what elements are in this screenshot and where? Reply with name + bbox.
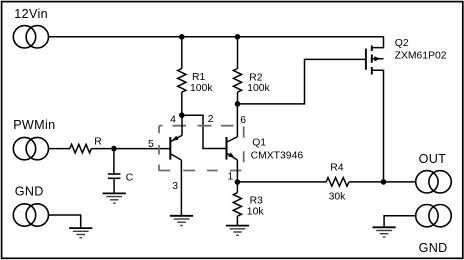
svg-text:Q1: Q1	[252, 138, 266, 149]
emitter lead up to pin 4	[181, 115, 183, 135]
ground under C	[103, 193, 126, 203]
svg-text:3: 3	[172, 181, 178, 192]
resistor R2	[233, 69, 241, 93]
emitter lead down pin 1	[236, 160, 238, 182]
wire R1 bottom lead	[181, 92, 183, 115]
svg-text:12Vin: 12Vin	[14, 7, 48, 21]
junction pin1 R3	[235, 179, 241, 185]
ground under R3	[226, 226, 249, 236]
junction OUT	[381, 179, 387, 185]
svg-text:R2: R2	[249, 72, 263, 83]
svg-text:30k: 30k	[329, 192, 347, 203]
svg-text:4: 4	[170, 115, 176, 126]
transistor Q1b (NPN right)	[227, 104, 238, 182]
transistor Q2 (P-MOSFET)	[366, 37, 384, 182]
junction PWM RC	[111, 146, 117, 152]
junction gate net	[235, 101, 241, 107]
wire R4 to OUT port	[349, 181, 416, 183]
wire OUT row: pin1 junction to R4	[237, 181, 326, 183]
svg-text:R4: R4	[330, 163, 344, 174]
svg-text:PWMin: PWMin	[13, 118, 55, 132]
emitter diagonal	[171, 135, 182, 141]
port GND right	[416, 205, 452, 227]
capacitor C	[108, 174, 121, 178]
svg-text:2: 2	[208, 114, 214, 125]
wire 12V top rail	[49, 36, 384, 38]
port GND left	[13, 204, 48, 226]
wire GND left port to ground	[49, 215, 81, 228]
gate bar	[365, 49, 367, 70]
collector diagonal	[171, 154, 182, 160]
ground left port	[69, 228, 92, 238]
svg-text:C: C	[126, 173, 134, 184]
collector lead up pin 6	[236, 104, 238, 137]
svg-text:100k: 100k	[190, 83, 213, 94]
transistor Q1a (PNP left)	[170, 115, 182, 215]
svg-text:10k: 10k	[247, 207, 265, 218]
ground right port	[373, 227, 396, 237]
junction pin4 net	[179, 112, 185, 118]
emitter arrow	[228, 152, 235, 158]
wire R2 bottom lead	[237, 92, 239, 104]
svg-text:6: 6	[240, 115, 246, 126]
svg-text:ZXM61P02: ZXM61P02	[395, 50, 447, 61]
wire PWM row: port to R	[49, 148, 70, 150]
svg-text:GND: GND	[15, 185, 44, 199]
wire R1 top lead	[181, 37, 183, 69]
emitter diagonal	[227, 153, 238, 160]
wire R3 bottom lead	[236, 216, 238, 225]
source stub + lead down to OUT junction	[372, 70, 384, 182]
wire pin2 net: R1 bottom junction to Q1b base	[182, 115, 227, 148]
port PWMin	[13, 137, 48, 159]
wire R to Q1a base	[91, 148, 170, 150]
port OUT	[416, 171, 452, 193]
base bar	[226, 137, 228, 160]
drain stub + lead to rail	[372, 37, 384, 48]
ground under Q1a pin 3	[170, 216, 193, 226]
capacitor C lead top	[113, 149, 115, 174]
svg-text:100k: 100k	[247, 83, 270, 94]
junction R1 top	[179, 34, 185, 40]
svg-text:CMXT3946: CMXT3946	[251, 150, 304, 161]
svg-text:R3: R3	[250, 196, 264, 207]
wire GND right port to ground	[384, 216, 416, 227]
channel segments	[371, 46, 373, 52]
collector lead down pin 3	[180, 160, 182, 216]
wire R2 top lead	[237, 37, 239, 69]
junction R2 top	[235, 34, 241, 40]
svg-text:R1: R1	[192, 72, 206, 83]
svg-text:Q2: Q2	[395, 38, 409, 49]
wire gate net: junction to Q2 gate	[238, 59, 366, 104]
resistor R	[70, 144, 92, 153]
resistor R3	[233, 193, 241, 217]
capacitor C lead bottom	[113, 178, 115, 193]
svg-text:R: R	[94, 136, 102, 147]
svg-text:1: 1	[228, 172, 234, 183]
port 12Vin	[13, 26, 48, 48]
resistor R3 lead top	[236, 182, 238, 193]
svg-text:5: 5	[148, 139, 154, 150]
resistor R4	[326, 178, 349, 187]
svg-text:OUT: OUT	[419, 152, 447, 166]
collector diagonal	[227, 137, 238, 142]
body stub with arrow	[372, 58, 384, 60]
emitter arrow	[171, 136, 178, 141]
svg-text:GND: GND	[419, 241, 448, 255]
resistor R1	[178, 69, 186, 93]
base bar	[169, 137, 171, 160]
dashed box Q1 package	[159, 126, 244, 171]
